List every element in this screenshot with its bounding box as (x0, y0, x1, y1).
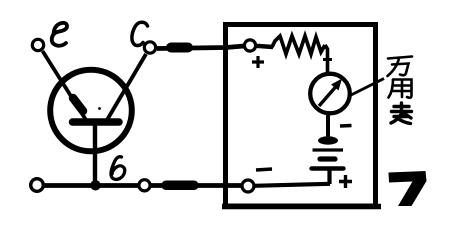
emitter arrow (73, 98, 83, 111)
label - (meter minus) (340, 124, 352, 128)
leader line to label (350, 79, 384, 96)
meter needle arrowhead (331, 79, 342, 91)
label e (52, 23, 67, 46)
label 用 (389, 80, 412, 98)
transistor Q1 (50, 70, 132, 152)
kink tick on wire (323, 58, 332, 61)
label - (bottom input minus) (256, 169, 272, 170)
junction base node (90, 180, 100, 190)
figure number 7 (389, 171, 427, 206)
terminal C (144, 42, 155, 53)
wire collector lead (107, 54, 146, 120)
plug thick segment bottom (166, 181, 194, 191)
transistor base bar (73, 118, 120, 126)
battery plate 1 (short thick) (318, 136, 338, 144)
label 表 (391, 103, 412, 124)
box bottom edge overshoot (222, 204, 381, 210)
battery plate 3 (short thick) (320, 156, 335, 161)
wire top (C to box input) (157, 46, 244, 49)
wire bottom inner (254, 184, 330, 186)
label + (battery plus) (339, 175, 352, 188)
label C (132, 22, 148, 45)
wire resistor to meter (325, 45, 328, 72)
label + (top input) (252, 56, 264, 68)
meter needle (319, 87, 336, 107)
wire bottom outer (42, 183, 243, 188)
wire terminal to resistor (256, 46, 273, 47)
label 万 (388, 57, 413, 77)
terminal bottom-left (31, 179, 44, 192)
terminal + input (244, 40, 255, 51)
multimeter box outline (226, 25, 376, 207)
wire base lead (93, 122, 97, 186)
wire emitter lead (43, 51, 87, 120)
terminal b outer (139, 180, 150, 191)
resistor R (272, 36, 325, 54)
terminal e (32, 39, 43, 50)
wire battery to bottom rail (327, 169, 331, 185)
terminal - input (242, 180, 254, 192)
wire meter to battery (326, 113, 330, 139)
meter M (310, 74, 350, 114)
label b (111, 157, 125, 180)
plug thick segment top (171, 43, 188, 53)
battery plate 4 (long) (312, 166, 344, 170)
speckle inside transistor (98, 107, 101, 110)
battery plate 2 (long thin) (313, 148, 344, 151)
